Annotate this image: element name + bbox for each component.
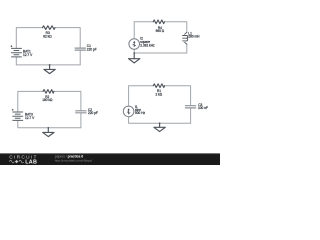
svg-text:180 kΩ: 180 kΩ [42, 98, 53, 102]
wire [18, 120, 81, 127]
ground [44, 65, 55, 74]
wire [134, 22, 153, 39]
resistor R1 [153, 84, 164, 88]
capacitor C2 [75, 111, 86, 113]
node junction dot D [159, 122, 161, 124]
node junction dot A [49, 64, 51, 66]
resistor R2 [43, 90, 54, 94]
svg-text:100 nF: 100 nF [198, 106, 208, 110]
wire [164, 22, 186, 33]
wire [129, 86, 154, 106]
wire [165, 86, 191, 105]
svg-text:2 kΩ: 2 kΩ [155, 93, 162, 97]
svg-text:220 pF: 220 pF [87, 48, 97, 52]
inductor L1 [183, 32, 188, 44]
wire [18, 91, 43, 111]
svg-text:990 Ω: 990 Ω [156, 29, 165, 33]
current source I2 [129, 39, 140, 50]
svg-text:12.7 V: 12.7 V [23, 53, 33, 57]
wire [190, 109, 192, 124]
node junction dot B [133, 52, 135, 54]
svg-text:500 Hz: 500 Hz [135, 111, 146, 115]
wire [55, 28, 80, 48]
capacitor C3 [185, 106, 196, 108]
resistor R4 [153, 20, 164, 24]
svg-text:82 kΩ: 82 kΩ [43, 35, 52, 39]
wire [80, 113, 82, 128]
svg-text:12.7 V: 12.7 V [25, 116, 35, 120]
battery BAT3 [12, 109, 23, 121]
wire [16, 28, 42, 49]
svg-text:http://circuitlab.com/c6bqqf: http://circuitlab.com/c6bqqf [55, 159, 92, 163]
node junction dot C [47, 127, 49, 129]
svg-text:2.381 kHz: 2.381 kHz [140, 44, 155, 48]
battery BAT1 [11, 45, 22, 57]
svg-text:LAB: LAB [25, 159, 37, 165]
wire [134, 44, 187, 53]
ground [43, 128, 54, 137]
svg-text:280 mH: 280 mH [188, 35, 200, 39]
wire [129, 117, 191, 124]
wire [54, 91, 81, 110]
capacitor C1 [75, 48, 86, 50]
svg-text:220 pF: 220 pF [88, 111, 98, 115]
resistor R3 [43, 26, 56, 30]
ground [129, 53, 140, 63]
current source I1 [123, 106, 134, 117]
wire [133, 49, 135, 53]
wire [16, 57, 80, 65]
wire [79, 50, 81, 65]
ground [154, 123, 165, 131]
